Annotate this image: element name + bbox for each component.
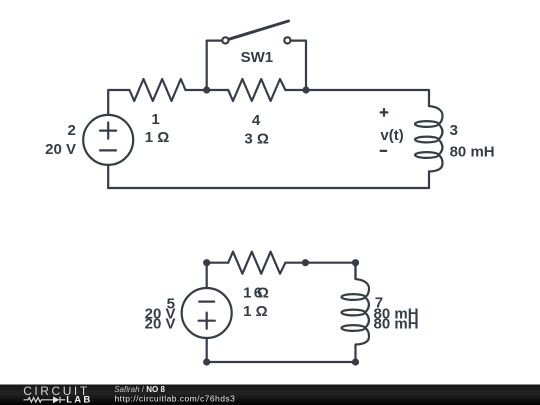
voltage source V2 circle (83, 115, 133, 165)
wire top-left to resistor (207, 262, 229, 264)
bottom wire top circuit (108, 187, 429, 189)
node B (R4/SW1 junction) (302, 86, 309, 93)
V5 plus sign (199, 313, 215, 329)
wire below L3 (428, 172, 430, 189)
svg-text:3 Ω: 3 Ω (244, 131, 269, 148)
v(t) minus mark (381, 150, 387, 152)
switch SW1 left terminal (222, 37, 228, 43)
resistor R6 (228, 252, 285, 274)
svg-text:80 mH: 80 mH (374, 315, 419, 332)
inductor L7 loop 1 (342, 294, 366, 300)
svg-text:3: 3 (450, 122, 458, 139)
svg-text:Ω: Ω (257, 285, 269, 302)
wire R1 to R4 (186, 89, 229, 91)
svg-text:v(t): v(t) (380, 127, 403, 144)
wire switch left (207, 41, 223, 90)
resistor R4 (228, 79, 285, 101)
wire top-left vertical (108, 90, 129, 115)
logo diode triangle (53, 396, 60, 403)
voltage source V5 circle (182, 288, 232, 338)
inductor L3 bumps (429, 106, 443, 172)
logo resistor zigzag and diode arrow (24, 397, 66, 403)
switch SW1 lever (229, 21, 289, 39)
svg-text:1 Ω: 1 Ω (145, 129, 170, 146)
svg-text:2: 2 (67, 122, 75, 139)
svg-text:http://circuitlab.com/c76hds3: http://circuitlab.com/c76hds3 (115, 394, 236, 404)
wire below V2 (107, 165, 109, 188)
svg-text:80 mH: 80 mH (450, 143, 495, 160)
wire below V5 (206, 338, 208, 362)
V2 plus sign (100, 123, 116, 139)
V2 minus sign (100, 149, 116, 151)
svg-text:1: 1 (243, 285, 251, 302)
svg-text:Safirah / NO 8: Safirah / NO 8 (114, 385, 165, 394)
wire resistor to corner (285, 263, 355, 279)
node F bottom circuit bottom-left (203, 358, 210, 365)
svg-text:LAB: LAB (66, 394, 92, 405)
node A (R1/SW1 junction) (203, 86, 210, 93)
svg-text:4: 4 (252, 112, 261, 129)
v(t) plus mark (381, 109, 388, 116)
node C bottom circuit top-left (203, 259, 210, 266)
svg-text:SW1: SW1 (241, 49, 274, 66)
inductor L3 loop 1 (415, 121, 439, 127)
wire switch right (291, 41, 307, 90)
V5 minus sign (199, 301, 214, 303)
node E bottom circuit top-right corner (352, 259, 359, 266)
inductor L3 loop 2 (415, 137, 439, 143)
node G bottom circuit bottom-right (352, 358, 359, 365)
svg-text:20 V: 20 V (45, 141, 76, 158)
wire above V5 (206, 263, 208, 288)
node D bottom circuit after resistor (302, 259, 309, 266)
switch SW1 right terminal (284, 37, 290, 43)
bottom wire bottom circuit (207, 361, 356, 363)
inductor L7 loop 2 (342, 310, 366, 316)
wire R4 to top-right corner (285, 90, 429, 106)
inductor L7 bumps (356, 263, 370, 362)
svg-text:20 V: 20 V (145, 315, 176, 332)
svg-text:1 Ω: 1 Ω (243, 303, 268, 320)
resistor R1 (130, 79, 186, 101)
svg-text:1: 1 (151, 111, 159, 128)
inductor L7 loop 3 (342, 325, 366, 331)
inductor L3 loop 3 (415, 152, 439, 158)
